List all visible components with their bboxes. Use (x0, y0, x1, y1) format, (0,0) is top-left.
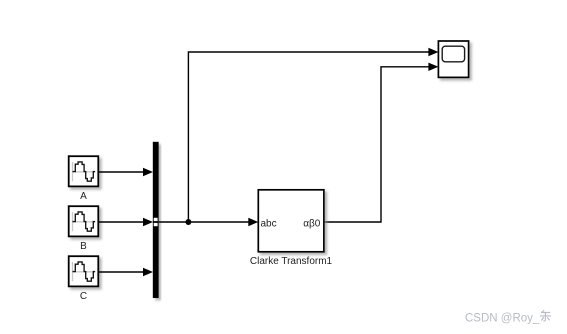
wire B to mux (98, 218, 153, 226)
wire Clarke Transform1 to scope input 2 (324, 63, 439, 222)
svg-text:C: C (80, 291, 87, 302)
svg-text:CSDN @Roy_: CSDN @Roy_ (465, 312, 540, 324)
junction node (185, 219, 191, 225)
watermark CSDN @Roy_乐 (465, 310, 551, 324)
source block A (69, 156, 99, 186)
wire A to mux (98, 168, 153, 176)
wire junction to scope input 1 (188, 48, 438, 222)
scope block (438, 41, 468, 77)
svg-text:αβ0: αβ0 (303, 218, 321, 229)
block Clarke Transform1 (258, 190, 324, 252)
wire C to mux (98, 268, 153, 276)
mux Mux (153, 142, 159, 298)
source block B (69, 206, 99, 236)
svg-text:B: B (80, 241, 87, 252)
svg-text:A: A (80, 191, 87, 202)
svg-text:Clarke Transform1: Clarke Transform1 (250, 256, 333, 267)
svg-text:abc: abc (261, 218, 277, 229)
source block C (69, 256, 99, 286)
wire mux to Clarke Transform1 (159, 218, 259, 226)
